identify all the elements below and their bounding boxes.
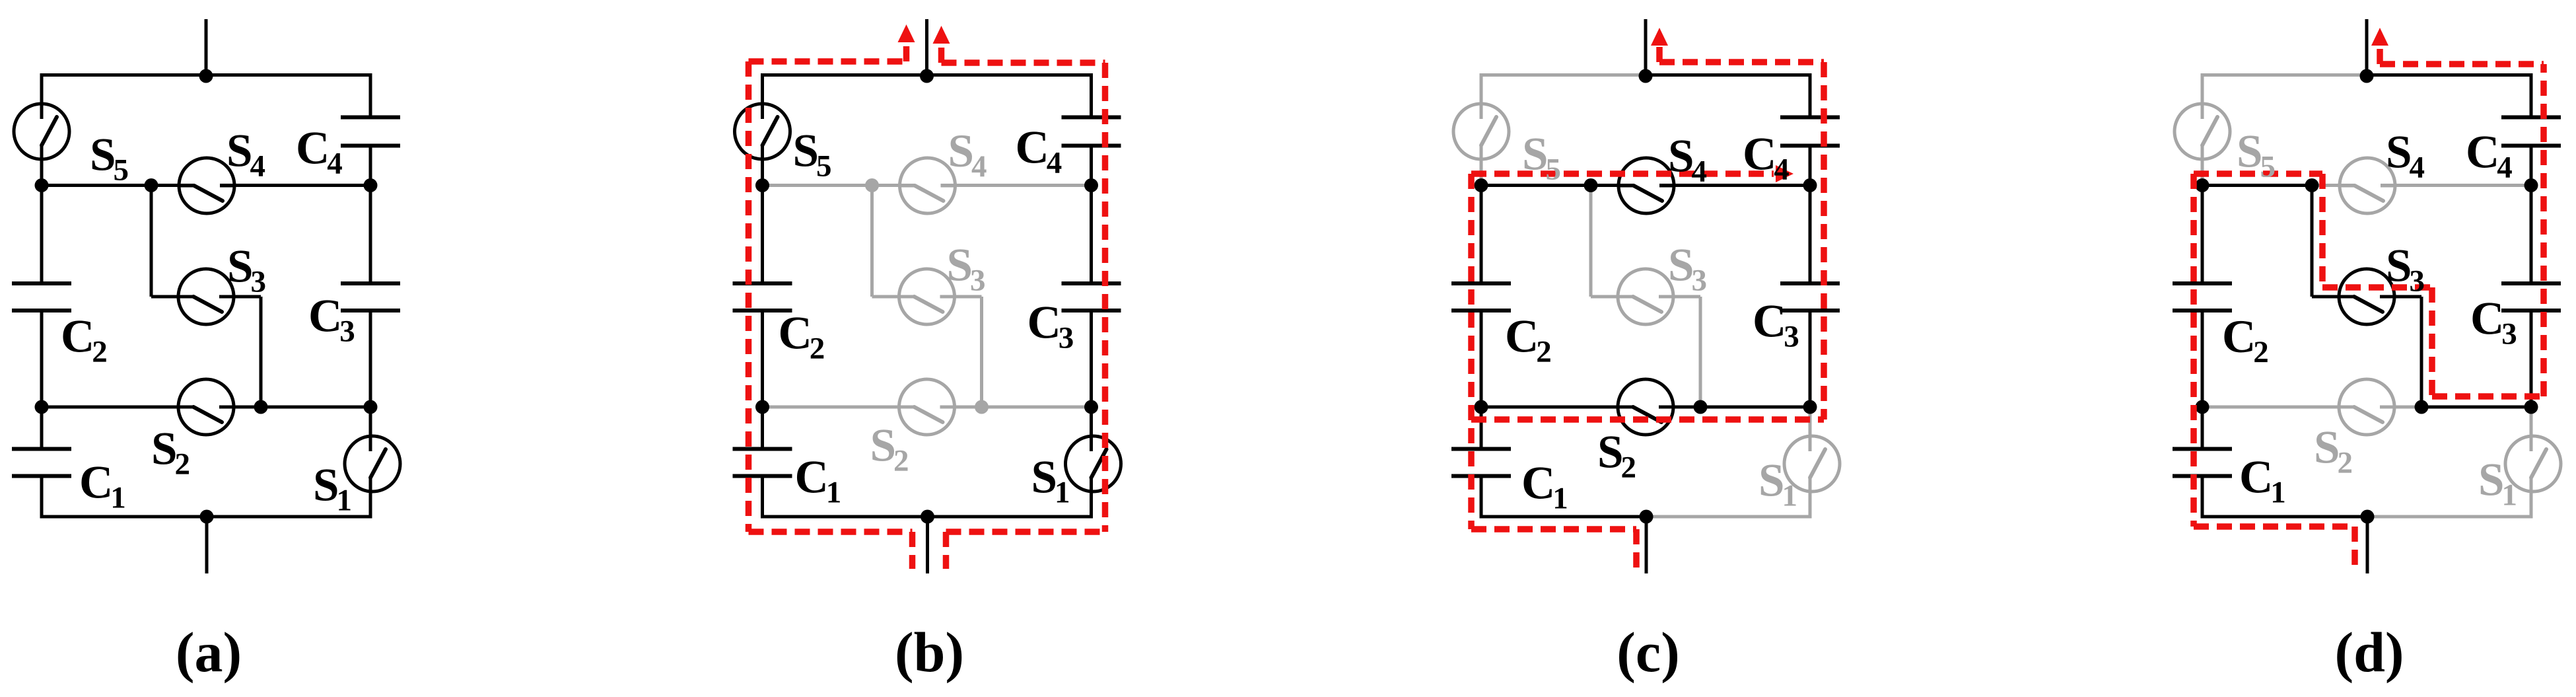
wire S4-node drop to S3 row (a) <box>150 186 153 297</box>
red path S3-row horizontal (d) <box>2322 284 2432 291</box>
svg-text:S2: S2 <box>1597 427 1636 485</box>
wire bottom-right segment (c) <box>1646 515 1812 519</box>
red path top-left horizontal (b) <box>749 58 907 65</box>
wire top-right segment (a) <box>206 73 372 77</box>
node top terminal junction (a) <box>199 69 213 83</box>
node S4 drop junction (b) <box>865 178 879 192</box>
node S3 drop junction (a) <box>254 400 268 414</box>
red path top horizontal (d) <box>2380 61 2544 67</box>
wire S2-row node to S1 (d) <box>2530 407 2533 451</box>
red path arrow shaft left (b) <box>903 42 910 61</box>
wire bottom-right segment (b) <box>928 515 1094 519</box>
capacitor C2 (b) <box>733 283 792 311</box>
wire S3 drop to S2 row (d) <box>2420 297 2423 407</box>
wire bottom-right segment (d) <box>2367 515 2533 519</box>
wire left upper (into S5) (b) <box>761 75 764 120</box>
switch S4 (b) <box>899 158 957 213</box>
switch S4 (a) <box>178 158 236 213</box>
wire C4 to S4-row node (d) <box>2530 146 2533 186</box>
wire bottom-left segment (c) <box>1480 515 1647 519</box>
svg-text:C1: C1 <box>1521 458 1568 516</box>
wire bottom-right segment (a) <box>207 515 372 519</box>
red path S5-row horizontal (d) <box>2194 170 2322 177</box>
wire C3 to S2-row node (a) <box>369 311 372 407</box>
capacitor C4 (b) <box>1062 118 1121 146</box>
red current path (d) <box>2194 28 2544 571</box>
node S3 drop junction (d) <box>2415 400 2429 414</box>
wire left upper (into S5) (c) <box>1480 75 1483 120</box>
node top terminal junction (c) <box>1639 69 1653 83</box>
wire S4-row left segment (c) <box>1481 184 1591 187</box>
wire top-right segment (c) <box>1646 73 1812 77</box>
wire S3-row left segment (c) <box>1591 295 1633 299</box>
wire right upper (into C4) (a) <box>369 75 372 118</box>
svg-text:S5: S5 <box>2237 126 2276 184</box>
wire C3 to S2-row node (c) <box>1809 311 1812 407</box>
wire S1 to bottom corner (b) <box>1090 478 1093 517</box>
svg-text:S4: S4 <box>948 126 987 184</box>
node bottom terminal junction (b) <box>921 510 934 524</box>
wire C1 to bottom corner (c) <box>1480 476 1483 517</box>
node S3 drop junction (b) <box>975 400 989 414</box>
wire S2-row left segment (a) <box>42 406 193 409</box>
capacitor C3 (b) <box>1062 283 1121 311</box>
node left S2-row junction (b) <box>755 400 769 414</box>
wire S4-row left segment (d) <box>2202 184 2312 187</box>
wire S3-row right segment (b) <box>940 295 982 299</box>
svg-text:C3: C3 <box>1027 297 1074 355</box>
capacitor C1 (b) <box>733 449 792 476</box>
wire S4-row left segment (b) <box>763 184 872 187</box>
wire C1 to bottom corner (b) <box>761 476 764 517</box>
node left S2-row junction (d) <box>2196 400 2210 414</box>
wire S5 to node (d) <box>2201 145 2204 186</box>
wire S4-row right segment (a) <box>220 184 370 187</box>
wire left mid (node to C2) (b) <box>761 186 764 284</box>
wire S5 to node (b) <box>761 145 764 186</box>
node right S2-row junction (a) <box>364 400 378 414</box>
red path arrowhead top (d) <box>2371 28 2388 46</box>
wire C2 to S2-row node (c) <box>1480 311 1483 407</box>
red path arrowhead right (b) <box>933 26 950 44</box>
switch S5 (c) <box>1453 101 1509 162</box>
node S3 drop junction (c) <box>1694 400 1708 414</box>
wire S2-row node to C1 (a) <box>40 407 44 449</box>
wire S2-row mid segment (d) <box>2380 406 2421 409</box>
wire top-left segment (b) <box>761 73 927 77</box>
svg-text:S1: S1 <box>2478 455 2517 513</box>
red path top-right horizontal (b) <box>942 59 1105 66</box>
switch S2 (d) <box>2338 379 2396 435</box>
capacitor C3 (d) <box>2501 283 2561 311</box>
wire S2-row left segment (b) <box>763 406 915 409</box>
wire S4-node drop to S3 row (c) <box>1589 186 1593 297</box>
wire S2-row node to C1 (c) <box>1480 407 1483 449</box>
red path bottom drop (d) <box>2351 527 2358 571</box>
svg-text:S2: S2 <box>151 423 190 482</box>
capacitor C3 (a) <box>341 283 400 311</box>
red path bottom-right horizontal (b) <box>946 529 1105 535</box>
switch S3 (b) <box>898 269 956 324</box>
wire S4-row right segment (d) <box>2381 184 2531 187</box>
svg-text:S2: S2 <box>870 420 909 478</box>
node top terminal junction (d) <box>2360 69 2374 83</box>
red path arrowhead right (c) <box>1776 165 1793 182</box>
wire right upper (into C4) (c) <box>1809 75 1812 118</box>
red path bottom horizontal (c) <box>1471 526 1636 532</box>
wire S3-row left segment (d) <box>2312 295 2354 299</box>
wire right upper (into C4) (d) <box>2530 75 2533 118</box>
wire S2-row node to C1 (b) <box>761 407 764 449</box>
switch S4 (d) <box>2338 158 2396 213</box>
red path top horizontal (c) <box>1659 59 1824 65</box>
node left S4-row junction (c) <box>1475 178 1488 192</box>
svg-text:S4: S4 <box>2386 127 2425 185</box>
wire S2-row mid segment (a) <box>219 406 261 409</box>
node left S2-row junction (c) <box>1475 400 1488 414</box>
switch S1 (a) <box>345 433 400 494</box>
wire top-right segment (b) <box>927 73 1094 77</box>
node right S2-row junction (d) <box>2524 400 2538 414</box>
node S4 drop junction (a) <box>145 178 158 192</box>
node right S4-row junction (c) <box>1803 178 1817 192</box>
wire S4-row mid segment (b) <box>872 184 915 187</box>
wire S3-row right segment (a) <box>219 295 261 299</box>
wire left upper (into S5) (a) <box>40 75 44 120</box>
wire S5 to node (c) <box>1480 145 1483 186</box>
red path left vertical (d) <box>2190 174 2197 527</box>
wire S2-row mid segment (c) <box>1659 406 1700 409</box>
wire bottom-left segment (b) <box>761 515 928 519</box>
capacitor C4 (c) <box>1780 118 1840 146</box>
top terminal stub (b) <box>925 19 928 75</box>
top terminal stub (c) <box>1644 19 1648 75</box>
wire S3-row left segment (a) <box>151 295 193 299</box>
switch S5 (b) <box>735 101 790 162</box>
node right S4-row junction (b) <box>1084 178 1098 192</box>
capacitor C2 (a) <box>12 283 71 311</box>
red path arrow shaft (d) <box>2377 46 2383 64</box>
red path bottom-left drop (b) <box>909 532 916 569</box>
svg-text:S3: S3 <box>947 240 986 298</box>
wire left mid (node to C2) (c) <box>1480 186 1483 284</box>
wire S2-row right segment (a) <box>261 406 370 409</box>
svg-text:S3: S3 <box>2386 240 2425 299</box>
svg-text:S5: S5 <box>793 126 832 184</box>
wire right upper (into C4) (b) <box>1090 75 1093 118</box>
red path arrowhead top (c) <box>1651 28 1668 46</box>
bottom terminal stub (a) <box>205 517 209 573</box>
node left S2-row junction (a) <box>35 400 49 414</box>
capacitor C1 (c) <box>1451 449 1511 476</box>
wire C2 to S2-row node (a) <box>40 311 44 407</box>
wire S1 to bottom corner (c) <box>1809 478 1812 517</box>
wire S4-row left segment (a) <box>42 184 151 187</box>
svg-text:C1: C1 <box>2239 452 2286 510</box>
wire S3 drop to S2 row (b) <box>980 297 983 407</box>
wire S4-node drop to S3 row (d) <box>2311 186 2314 297</box>
wire S4-row node to C3 (a) <box>369 186 372 284</box>
red path arrow shaft right (b) <box>938 44 945 63</box>
switch S3 (a) <box>177 269 235 324</box>
capacitor C2 (d) <box>2173 283 2232 311</box>
switch S4 (c) <box>1617 158 1675 213</box>
wire C4 to S4-row node (a) <box>369 146 372 186</box>
svg-text:S5: S5 <box>1522 129 1561 187</box>
switch S3 (d) <box>2338 269 2396 324</box>
wire S2-row right segment (b) <box>982 406 1092 409</box>
capacitor C4 (a) <box>341 118 400 146</box>
wire S4-row mid segment (a) <box>151 184 194 187</box>
switch S2 (c) <box>1617 379 1675 435</box>
node right S4-row junction (d) <box>2524 178 2538 192</box>
svg-text:C1: C1 <box>79 457 126 515</box>
wire S2-row node to C1 (d) <box>2201 407 2204 449</box>
svg-text:C4: C4 <box>1743 129 1790 187</box>
red path S2-row horizontal (c) <box>1471 416 1824 423</box>
wire S4-row right segment (c) <box>1659 184 1810 187</box>
red path bottom drop (c) <box>1633 529 1640 569</box>
red current path (c) <box>1471 28 1824 569</box>
node top terminal junction (b) <box>920 69 934 83</box>
wire C1 to bottom corner (d) <box>2201 476 2204 517</box>
wire top-left segment (c) <box>1480 73 1646 77</box>
wire top-right segment (d) <box>2367 73 2533 77</box>
wire C3 to S2-row node (b) <box>1090 311 1093 407</box>
wire S4-row node to C3 (b) <box>1090 186 1093 284</box>
wire S3-row right segment (c) <box>1659 295 1700 299</box>
red path right vertical (c) <box>1821 62 1827 420</box>
red path drop to S2 row (d) <box>2429 287 2435 396</box>
wire S3 drop to S2 row (c) <box>1699 297 1702 407</box>
switch S3 (c) <box>1617 269 1675 324</box>
red path right vertical (d) <box>2540 64 2547 396</box>
svg-text:C3: C3 <box>1753 296 1799 354</box>
red path arrowhead left (b) <box>898 24 915 42</box>
wire S4-row mid segment (c) <box>1591 184 1634 187</box>
wire S3-row left segment (b) <box>872 295 915 299</box>
wire S2-row right segment (c) <box>1700 406 1810 409</box>
wire S3-row right segment (d) <box>2380 295 2421 299</box>
node S4 drop junction (d) <box>2305 178 2319 192</box>
wire S2-row left segment (d) <box>2202 406 2354 409</box>
switch S1 (c) <box>1784 433 1840 494</box>
capacitor C1 (a) <box>12 449 71 476</box>
red path arrow shaft (c) <box>1656 46 1663 62</box>
wire S2-row node to S1 (a) <box>369 407 372 451</box>
wire left mid (node to C2) (a) <box>40 186 44 284</box>
node bottom terminal junction (d) <box>2361 510 2375 524</box>
wire C4 to S4-row node (b) <box>1090 146 1093 186</box>
red path bottom horizontal (d) <box>2194 523 2353 530</box>
red path S4-row horizontal (c) <box>1471 170 1774 177</box>
top terminal stub (d) <box>2365 19 2369 75</box>
wire S3 drop to S2 row (a) <box>260 297 263 407</box>
wire C2 to S2-row node (b) <box>761 311 764 407</box>
svg-text:(d): (d) <box>2334 620 2404 684</box>
wire S2-row node to S1 (b) <box>1090 407 1093 451</box>
node left S4-row junction (a) <box>35 178 49 192</box>
svg-text:S5: S5 <box>90 129 129 188</box>
svg-text:(c): (c) <box>1617 620 1679 684</box>
node left S4-row junction (b) <box>755 178 769 192</box>
svg-text:S3: S3 <box>227 241 266 299</box>
svg-text:S2: S2 <box>2314 422 2353 480</box>
wire S2-row node to S1 (c) <box>1809 407 1812 451</box>
wire S4-row node to C3 (d) <box>2530 186 2533 284</box>
node S4 drop junction (c) <box>1584 178 1598 192</box>
switch S5 (d) <box>2175 101 2230 162</box>
red path left vertical (b) <box>746 61 752 532</box>
svg-text:C2: C2 <box>779 308 825 366</box>
capacitor C4 (d) <box>2501 118 2561 146</box>
node right S4-row junction (a) <box>364 178 378 192</box>
wire top-left segment (d) <box>2201 73 2367 77</box>
svg-text:C3: C3 <box>308 291 355 349</box>
node bottom terminal junction (c) <box>1640 510 1654 524</box>
wire S4-row mid segment (d) <box>2312 184 2355 187</box>
capacitor C2 (c) <box>1451 283 1511 311</box>
svg-text:(a): (a) <box>176 620 242 684</box>
wire S2-row left segment (c) <box>1481 406 1633 409</box>
wire bottom-left segment (d) <box>2201 515 2368 519</box>
wire bottom-left segment (a) <box>40 515 207 519</box>
svg-text:C2: C2 <box>61 311 108 369</box>
top terminal stub (a) <box>205 19 208 75</box>
wire S4-row right segment (b) <box>941 184 1092 187</box>
bottom terminal stub (b) <box>926 517 929 573</box>
svg-text:S3: S3 <box>1668 240 1707 298</box>
wire S1 to bottom corner (d) <box>2530 478 2533 517</box>
svg-text:C4: C4 <box>1016 122 1062 180</box>
bottom terminal stub (d) <box>2366 517 2369 573</box>
svg-text:(b): (b) <box>895 620 964 684</box>
wire C1 to bottom corner (a) <box>40 476 44 517</box>
svg-text:C4: C4 <box>296 123 343 181</box>
red path bottom-right drop (b) <box>943 532 950 569</box>
node right S2-row junction (b) <box>1084 400 1098 414</box>
wire S5 to node (a) <box>40 145 44 186</box>
wire S4-row node to C3 (c) <box>1809 186 1812 284</box>
red path S2-row horizontal (d) <box>2432 393 2544 400</box>
wire S2-row mid segment (b) <box>940 406 982 409</box>
node left S4-row junction (d) <box>2196 178 2210 192</box>
node right S2-row junction (c) <box>1803 400 1817 414</box>
svg-text:C1: C1 <box>795 452 842 510</box>
switch S1 (d) <box>2505 433 2561 494</box>
svg-text:C2: C2 <box>2222 311 2269 369</box>
wire S2-row right segment (d) <box>2421 406 2531 409</box>
wire S1 to bottom corner (a) <box>369 478 372 517</box>
red path bottom-left horizontal (b) <box>749 529 913 535</box>
wire S4-node drop to S3 row (b) <box>870 186 874 297</box>
wire C2 to S2-row node (d) <box>2201 311 2204 407</box>
switch S2 (a) <box>177 379 235 435</box>
bottom terminal stub (c) <box>1645 517 1648 573</box>
node bottom terminal junction (a) <box>200 510 214 524</box>
svg-text:C2: C2 <box>1505 311 1552 369</box>
red path right vertical (b) <box>1102 63 1109 532</box>
wire left upper (into S5) (d) <box>2201 75 2204 120</box>
red current path (b) <box>749 24 1105 569</box>
wire C4 to S4-row node (c) <box>1809 146 1812 186</box>
red path drop to S3 row (d) <box>2319 174 2326 287</box>
switch S1 (b) <box>1066 433 1121 494</box>
svg-text:S1: S1 <box>1758 455 1797 513</box>
wire top-left segment (a) <box>40 73 207 77</box>
switch S5 (a) <box>14 101 69 162</box>
capacitor C1 (d) <box>2173 449 2232 476</box>
svg-text:S4: S4 <box>1668 131 1707 189</box>
red path left vertical (c) <box>1468 174 1475 529</box>
wire C3 to S2-row node (d) <box>2530 311 2533 407</box>
svg-text:C4: C4 <box>2466 127 2513 185</box>
svg-text:C3: C3 <box>2470 293 2517 351</box>
svg-text:S4: S4 <box>226 126 265 184</box>
switch S2 (b) <box>898 379 956 435</box>
capacitor C3 (c) <box>1780 283 1840 311</box>
wire left mid (node to C2) (d) <box>2201 186 2204 284</box>
